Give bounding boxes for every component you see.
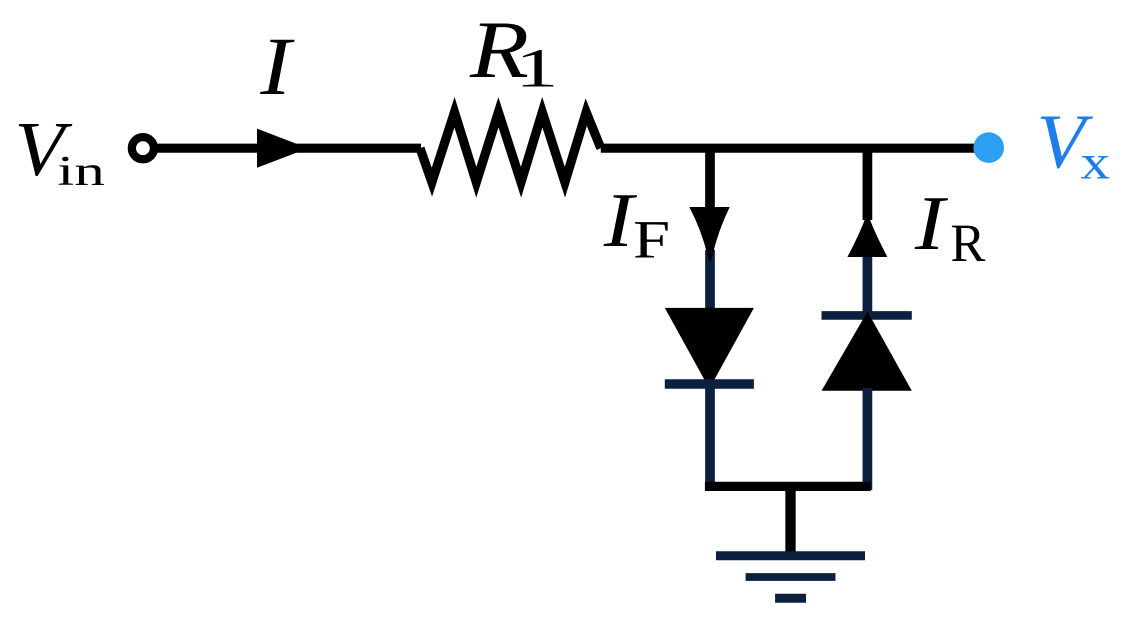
wire resistor to Vx: [601, 144, 975, 153]
svg-text:x: x: [1080, 135, 1110, 190]
right branch navy wire lower: [863, 388, 873, 490]
left branch navy wire lower: [705, 384, 715, 490]
current arrow IR (up): [847, 215, 887, 258]
label R1: [469, 5, 529, 95]
left branch black stem: [705, 145, 715, 212]
label IR: [914, 182, 948, 267]
diode DR triangle: [822, 312, 912, 391]
svg-text:1: 1: [515, 37, 558, 99]
ground bar 2: [746, 573, 836, 581]
svg-text:F: F: [633, 210, 670, 270]
current arrow I on wire: [257, 129, 308, 168]
svg-text:I: I: [603, 179, 637, 264]
ground stem: [785, 486, 795, 556]
node Vin label: [15, 107, 74, 192]
current arrow IF (down): [689, 207, 729, 262]
diode DR cathode bar: [822, 311, 912, 320]
resistor R1: [420, 112, 601, 182]
diode DF cathode bar: [665, 379, 754, 388]
label I: [259, 20, 295, 112]
label IF: [603, 179, 637, 264]
diode DF triangle: [665, 308, 754, 389]
ground bar 1: [716, 551, 865, 560]
right branch navy wire upper: [863, 250, 873, 318]
label Vx: [1037, 100, 1094, 185]
ground bar 3: [775, 594, 806, 603]
bottom wire joining branches: [705, 482, 871, 491]
wire Vin to resistor: [157, 144, 421, 153]
svg-text:I: I: [259, 20, 295, 112]
svg-text:in: in: [57, 148, 105, 194]
svg-text:R: R: [950, 214, 986, 273]
svg-text:I: I: [914, 182, 948, 267]
left branch navy wire upper: [705, 250, 715, 312]
right branch black stem: [863, 145, 873, 220]
terminal Vin (open circle): [132, 137, 154, 159]
node Vx dot: [973, 132, 1004, 163]
